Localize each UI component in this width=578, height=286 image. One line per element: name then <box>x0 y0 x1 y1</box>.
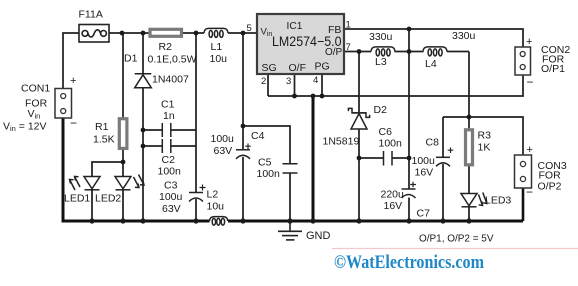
svg-text:0.1E,0.5W: 0.1E,0.5W <box>148 54 197 66</box>
svg-text:C7: C7 <box>417 208 431 220</box>
capacitor C5 <box>283 164 298 173</box>
svg-text:10u: 10u <box>210 53 228 65</box>
LED1 <box>70 177 101 191</box>
junction L3/L4 node <box>407 49 412 54</box>
wire LED branch to LED1 <box>92 162 123 177</box>
wire D2 line upper <box>358 52 360 113</box>
wire C6 right lead <box>392 157 409 159</box>
wire PG pin4 drop <box>321 74 323 96</box>
svg-text:C6: C6 <box>379 126 393 138</box>
wire O/F pin3 drop <box>294 74 296 96</box>
svg-text:D2: D2 <box>374 104 388 116</box>
wire D1 line bottom to rail <box>142 88 144 221</box>
wire thick ground drop from bus <box>312 96 315 221</box>
svg-text:O/P1, O/P2 = 5V: O/P1, O/P2 = 5V <box>419 233 494 245</box>
wire D2 line lower to rail <box>358 129 360 221</box>
junction C4/C5 branch <box>241 124 246 129</box>
svg-text:100n: 100n <box>158 166 182 178</box>
ground rail left segment <box>62 220 210 223</box>
svg-text:C1: C1 <box>161 99 175 111</box>
op IC1 LM2574 body <box>257 14 344 74</box>
junction C2 left <box>141 144 146 149</box>
junction rail D2 <box>356 218 361 223</box>
capacitor C7 plus sign <box>410 182 416 188</box>
junction R2/L1 node <box>194 31 199 36</box>
wire CON1 minus lead thick <box>62 118 65 220</box>
wire C4 bottom to rail <box>242 157 244 221</box>
svg-text:L3: L3 <box>375 56 387 68</box>
capacitor C8 plus sign <box>448 148 454 154</box>
svg-text:1N4007: 1N4007 <box>152 74 189 86</box>
svg-text:100n: 100n <box>379 138 403 150</box>
svg-text:O/F: O/F <box>289 62 307 74</box>
wire R3 top lead <box>468 117 470 129</box>
connector CON3 <box>515 155 532 188</box>
svg-text:100n: 100n <box>257 168 281 180</box>
diode D2 schottky <box>348 108 369 129</box>
wire R1 line top <box>122 33 124 118</box>
svg-text:1N5819: 1N5819 <box>323 136 360 148</box>
svg-text:LED2: LED2 <box>95 193 121 205</box>
wire C2 leads <box>143 145 196 147</box>
svg-text:Vin = 12V: Vin = 12V <box>3 121 47 134</box>
svg-text:O/P2: O/P2 <box>538 181 562 193</box>
junction R1/LED node <box>121 160 126 165</box>
svg-text:100u: 100u <box>412 155 436 167</box>
fuse F1 body <box>79 25 109 43</box>
wire LED1 to rail <box>91 190 93 221</box>
svg-text:1K: 1K <box>478 142 491 154</box>
junction rail ground drop <box>310 218 315 223</box>
junction rail D1 <box>140 218 145 223</box>
svg-text:1n: 1n <box>163 110 175 122</box>
wire C1 leads <box>143 129 196 131</box>
svg-text:LED3: LED3 <box>485 195 511 207</box>
junction D2/C6 <box>357 156 362 161</box>
svg-text:63V: 63V <box>214 145 233 157</box>
capacitor C1 <box>162 123 171 137</box>
svg-text:1: 1 <box>346 20 351 31</box>
svg-text:CON1: CON1 <box>21 83 50 95</box>
svg-text:100u: 100u <box>211 133 235 145</box>
svg-text:R1: R1 <box>95 121 109 133</box>
wire LED2 to rail <box>122 190 124 221</box>
svg-text:L1: L1 <box>211 41 223 53</box>
capacitor C8 polarized <box>436 157 450 166</box>
wire signal-ground bus <box>268 75 523 96</box>
svg-text:4: 4 <box>313 75 318 86</box>
svg-text:−: − <box>527 75 534 89</box>
junction rail C5/GND <box>287 218 292 223</box>
junction rail C4 <box>240 218 245 223</box>
svg-text:GND: GND <box>306 230 331 242</box>
svg-text:O/P1: O/P1 <box>541 63 565 75</box>
wire R2 to L1 <box>182 32 204 34</box>
svg-text:10u: 10u <box>207 201 225 213</box>
junction rail C8 <box>440 218 445 223</box>
junction R3 top node <box>467 115 472 120</box>
svg-text:2: 2 <box>261 76 266 87</box>
wire L4 to drop <box>447 51 469 53</box>
wire C7 bottom to ground rail <box>408 198 410 222</box>
svg-text:3: 3 <box>286 76 291 87</box>
diode D1 <box>135 74 152 88</box>
svg-text:16V: 16V <box>384 200 403 212</box>
resistor R2 body <box>150 29 182 36</box>
svg-text:C8: C8 <box>426 137 440 149</box>
capacitor C3 plus sign <box>200 185 206 191</box>
svg-text:C3: C3 <box>164 180 178 192</box>
svg-text:O/P: O/P <box>325 47 343 58</box>
svg-text:©WatElectronics.com: ©WatElectronics.com <box>334 253 485 273</box>
LED2 <box>115 175 144 190</box>
svg-text:1.5K: 1.5K <box>93 134 115 146</box>
connector CON1 <box>55 89 72 119</box>
resistor R3 body <box>466 130 473 165</box>
wire R1 bottom to LED node <box>122 149 124 177</box>
wire CON3 minus lead <box>522 188 525 221</box>
svg-text:R2: R2 <box>159 41 173 53</box>
svg-text:C4: C4 <box>251 130 265 142</box>
junction fuse/R1 node <box>120 31 125 36</box>
faint pink artifact line <box>332 248 578 250</box>
junction PG bus <box>320 94 325 99</box>
wire O/P pin7 to L3 <box>344 51 371 53</box>
svg-text:R3: R3 <box>478 130 492 142</box>
svg-text:F11A: F11A <box>79 9 103 21</box>
svg-text:+: + <box>526 36 532 48</box>
wire FB node down to L3/L4 node and C7 line <box>408 29 410 189</box>
wire C3 bottom to rail <box>195 199 197 221</box>
junction rail LED3 <box>466 218 471 223</box>
wire output sub-box top edge <box>443 117 523 155</box>
wire fuse to R2 <box>109 32 150 34</box>
LED3 <box>461 193 487 207</box>
junction FB node <box>407 27 412 32</box>
wire C5 bottom to rail <box>289 174 291 222</box>
wire C8 line lower <box>442 164 444 221</box>
svg-text:IC1: IC1 <box>287 21 303 32</box>
svg-text:C5: C5 <box>258 157 272 169</box>
svg-text:16V: 16V <box>415 167 434 179</box>
junction rail C7 <box>406 218 411 223</box>
inductor L4 <box>423 47 447 56</box>
capacitor C2 <box>162 139 171 153</box>
wire C3 line x196 upper <box>195 33 197 192</box>
svg-text:100u: 100u <box>159 191 183 203</box>
svg-text:LED1: LED1 <box>64 193 90 205</box>
resistor R1 body <box>119 119 127 149</box>
junction C6/C7 <box>407 156 412 161</box>
svg-text:D1: D1 <box>124 53 138 65</box>
capacitor C7 polarized <box>402 189 416 198</box>
svg-text:C2: C2 <box>162 154 176 166</box>
wire C8 line upper <box>442 117 444 157</box>
junction C1 left <box>141 128 146 133</box>
connector CON2 <box>515 47 531 75</box>
capacitor C6 <box>384 151 393 166</box>
svg-text:330u: 330u <box>452 30 476 42</box>
capacitor C4 plus sign <box>245 144 251 150</box>
inductor L3 <box>371 47 395 56</box>
wire CON1 plus lead to fuse <box>63 33 79 89</box>
junction O/P-D2 node <box>357 49 362 54</box>
ground rail right segment <box>228 220 523 223</box>
junction D1 top node <box>141 31 146 36</box>
svg-text:L2: L2 <box>207 189 219 201</box>
wire FB pin1 to CON2 plus <box>344 29 523 47</box>
wire L3 to L4 <box>395 51 424 53</box>
junction rail C3 <box>193 218 198 223</box>
svg-text:330u: 330u <box>369 31 393 43</box>
wire D1 line top <box>142 33 144 74</box>
capacitor C3 polarized <box>189 193 203 202</box>
wire C4/C5 branch <box>243 126 290 163</box>
svg-text:63V: 63V <box>162 203 181 215</box>
junction rail LED2 <box>120 218 125 223</box>
wire C4 line upper <box>242 33 244 149</box>
wire LED3 to rail <box>468 206 470 221</box>
wire L1 to IC Vin pin 5 <box>228 32 257 34</box>
svg-text:220u: 220u <box>381 189 405 201</box>
wire R3 to LED3 <box>468 165 470 194</box>
svg-text:SG: SG <box>262 62 277 74</box>
junction rail LED1 <box>89 218 94 223</box>
svg-text:+: + <box>70 75 76 87</box>
svg-text:−: − <box>70 116 77 130</box>
svg-text:+: + <box>527 144 533 156</box>
ground symbol <box>278 222 302 240</box>
inductor L2 on ground rail <box>210 217 228 226</box>
capacitor C4 polarized <box>236 150 250 159</box>
svg-text:7: 7 <box>346 42 351 53</box>
wire L4 output drop to R3 node <box>468 52 470 118</box>
svg-text:L4: L4 <box>425 58 437 70</box>
wire C6 left lead <box>359 157 384 159</box>
junction bus ground drop <box>311 94 316 99</box>
svg-text:5: 5 <box>247 23 252 34</box>
junction Vin/C4 node <box>241 31 246 36</box>
wire SG pin2 drop <box>267 74 269 96</box>
svg-text:PG: PG <box>315 61 330 73</box>
junction O/F bus <box>292 94 297 99</box>
inductor L1 <box>204 28 228 37</box>
svg-text:−: − <box>526 185 533 199</box>
